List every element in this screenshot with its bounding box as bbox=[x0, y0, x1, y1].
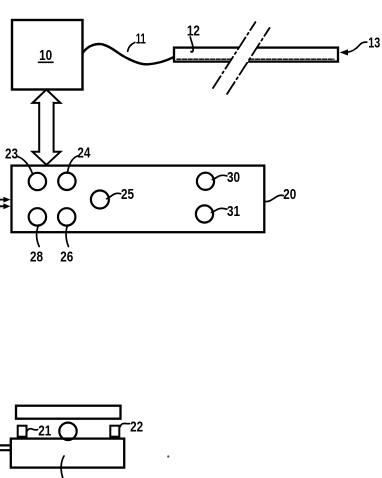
break line right bbox=[227, 28, 269, 94]
leader 23 bbox=[18, 157, 33, 174]
circle 23 bbox=[29, 173, 46, 190]
bar 12 inner line bbox=[177, 58, 334, 60]
svg-text:11: 11 bbox=[136, 31, 146, 48]
leader 31 bbox=[211, 208, 226, 212]
stray dot bbox=[167, 455, 169, 457]
stop block 21 bbox=[18, 426, 27, 437]
wire 11 bbox=[83, 44, 174, 64]
svg-text:10: 10 bbox=[39, 47, 52, 64]
top bar 22 assembly bbox=[16, 406, 121, 419]
leader 11 bbox=[128, 43, 135, 52]
svg-text:26: 26 bbox=[60, 248, 73, 265]
svg-text:21: 21 bbox=[38, 423, 51, 440]
plate 20 bbox=[12, 166, 265, 233]
leader 20 bbox=[265, 195, 284, 201]
leader 28 bbox=[37, 225, 40, 247]
double arrow 10-20 bbox=[33, 90, 61, 165]
svg-text:23: 23 bbox=[5, 146, 18, 163]
leader 26 bbox=[66, 225, 68, 246]
leader 30 bbox=[212, 175, 227, 179]
rod line lower bbox=[0, 449, 10, 451]
circle 31 bbox=[196, 205, 213, 222]
svg-text:20: 20 bbox=[283, 186, 296, 203]
svg-text:31: 31 bbox=[227, 203, 240, 220]
bar 12 body bbox=[174, 48, 338, 62]
leader below base bbox=[61, 456, 64, 478]
leader 12 bbox=[190, 37, 193, 52]
arrowhead 13 bbox=[341, 50, 348, 55]
circle 28 bbox=[29, 208, 46, 225]
break line left bbox=[213, 22, 255, 88]
leader 22 bbox=[120, 423, 130, 427]
svg-text:12: 12 bbox=[187, 22, 200, 39]
base block bbox=[11, 439, 124, 468]
circle 25 bbox=[91, 191, 109, 209]
circle 24 bbox=[58, 173, 75, 190]
box 10 bbox=[12, 20, 83, 90]
leader 25 bbox=[107, 193, 121, 198]
circle 26 bbox=[58, 208, 75, 225]
input arrow lower bbox=[0, 205, 5, 207]
leader 24 bbox=[67, 156, 77, 173]
svg-text:13: 13 bbox=[368, 35, 380, 52]
svg-text:28: 28 bbox=[30, 248, 43, 265]
input arrow upper bbox=[0, 199, 5, 201]
circle 30 bbox=[197, 173, 214, 190]
leader 21 bbox=[27, 429, 37, 431]
stop block 22 bbox=[110, 426, 119, 437]
svg-text:30: 30 bbox=[227, 169, 240, 186]
svg-text:24: 24 bbox=[77, 144, 91, 161]
ball bbox=[59, 423, 76, 440]
svg-text:22: 22 bbox=[130, 418, 143, 435]
rod line upper bbox=[0, 444, 10, 446]
leader 13 bbox=[348, 42, 367, 52]
svg-text:25: 25 bbox=[121, 186, 134, 203]
bar 12 break mask bbox=[209, 18, 275, 96]
